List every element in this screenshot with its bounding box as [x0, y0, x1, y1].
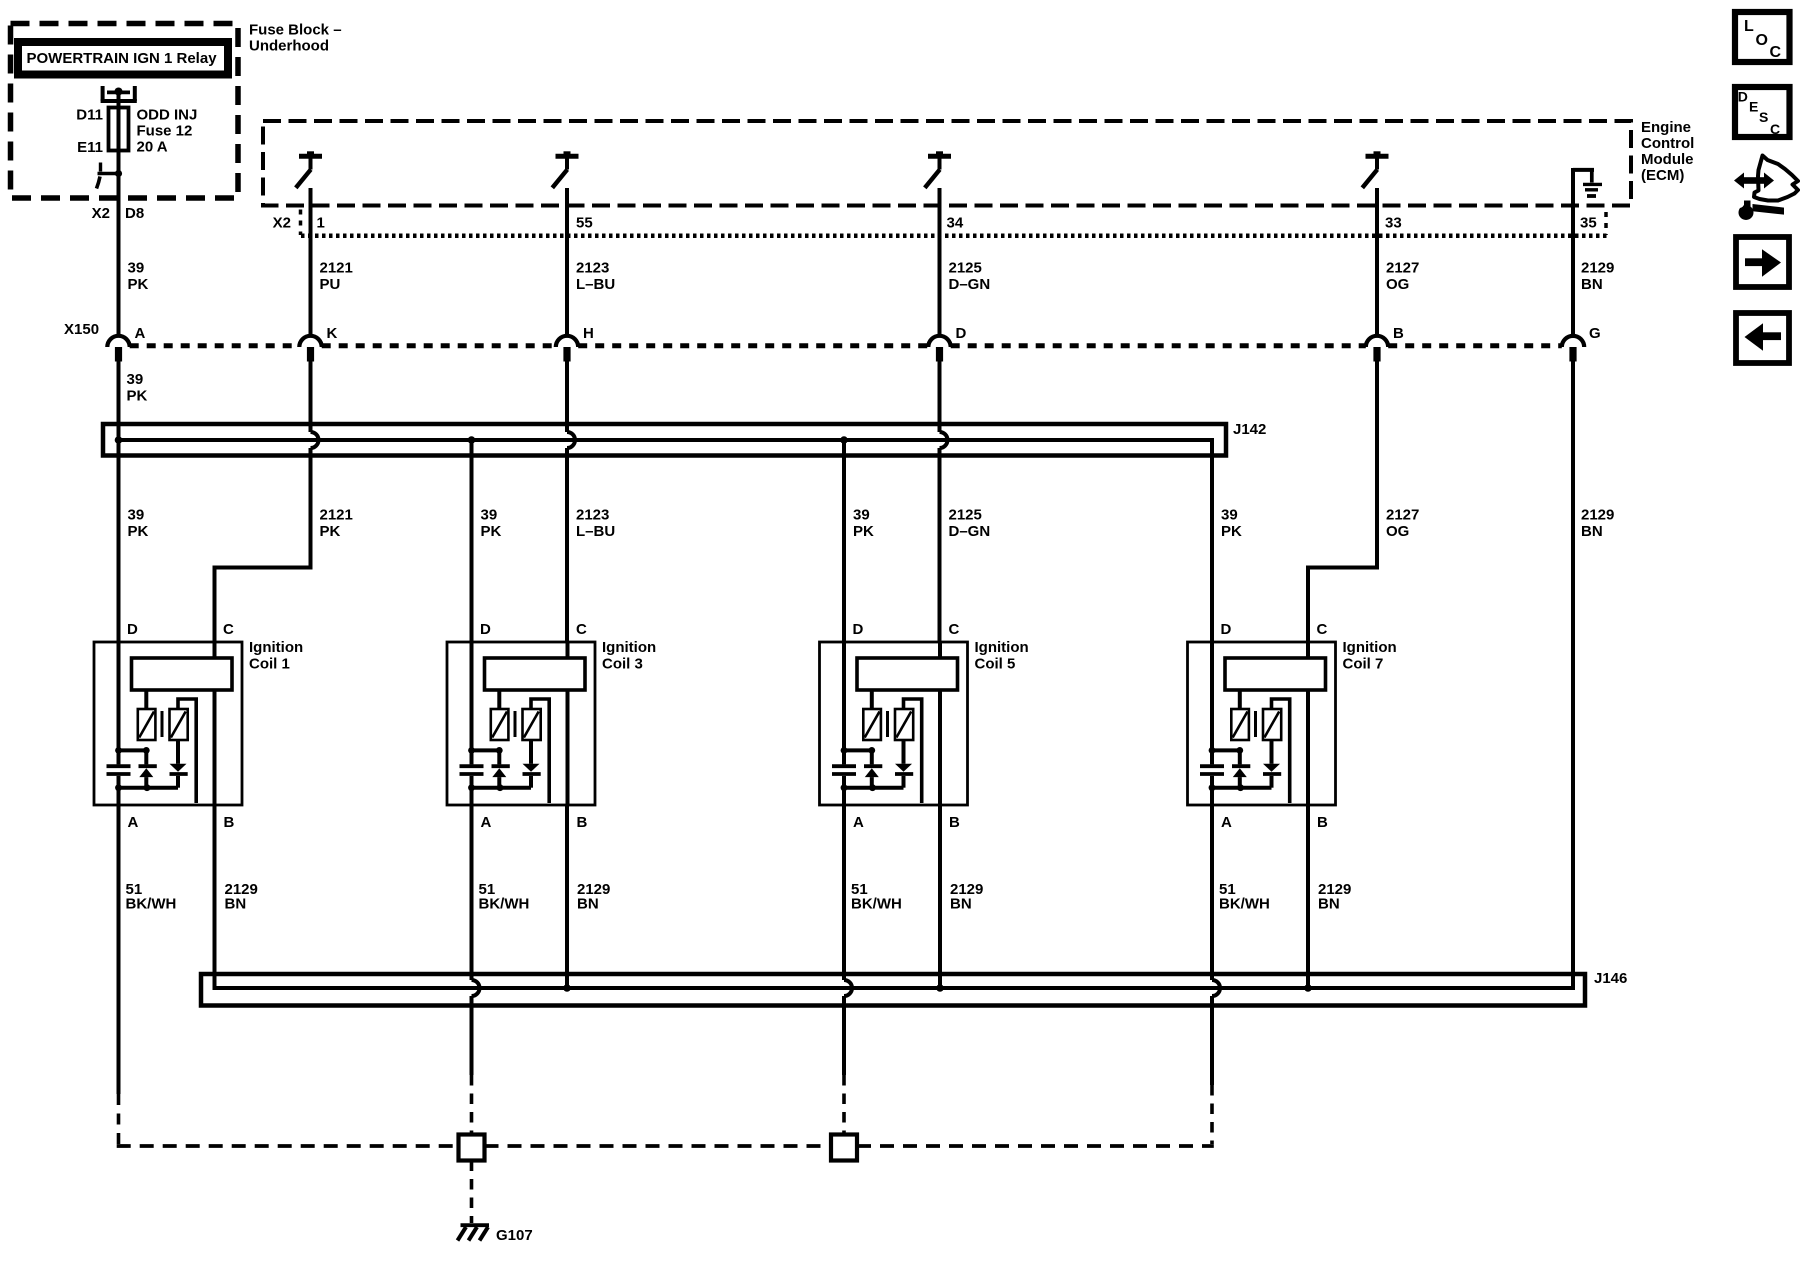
svg-text:D8: D8 — [125, 205, 144, 222]
svg-text:C: C — [1317, 621, 1328, 638]
junction bar — [119, 786, 179, 790]
svg-text:39: 39 — [128, 260, 145, 277]
primary winding — [1231, 709, 1249, 740]
ignition coil 5 box — [820, 642, 968, 805]
svg-text:ODD INJ: ODD INJ — [137, 107, 198, 124]
junction bar — [472, 786, 532, 790]
icon adjust (glove with arrows and wrench) — [1754, 156, 1798, 201]
coil primary bar — [485, 658, 586, 690]
secondary winding — [895, 709, 913, 740]
svg-text:2127: 2127 — [1386, 260, 1419, 277]
relay output terminal — [101, 86, 105, 101]
svg-text:(ECM): (ECM) — [1641, 167, 1684, 184]
junction — [1304, 984, 1312, 992]
wire 2125 D-GN (pin 34 to X150-D) — [938, 188, 942, 335]
svg-text:39: 39 — [481, 507, 498, 524]
wire 39 PK from relay through fuse to connector X150-A — [117, 92, 121, 335]
svg-text:2123: 2123 — [576, 260, 609, 277]
inline connection — [459, 1135, 485, 1161]
wire 2121 (X150-K across J142 to jog) — [309, 360, 313, 432]
secondary HV lead — [1272, 699, 1290, 803]
svg-text:2125: 2125 — [949, 507, 982, 524]
wire to ground G107 (dashed) — [470, 1161, 474, 1224]
junction — [115, 436, 123, 444]
core — [1254, 711, 1257, 737]
svg-text:OG: OG — [1386, 523, 1409, 540]
junction bar — [844, 786, 904, 790]
svg-text:D11: D11 — [76, 107, 103, 124]
svg-text:BK/WH: BK/WH — [479, 896, 530, 913]
svg-text:2125: 2125 — [949, 260, 982, 277]
zener diode — [870, 750, 874, 764]
junction bar — [844, 748, 872, 752]
ECM connector X2 boundary (dotted) — [301, 234, 1607, 239]
ECM driver (pin 55) — [556, 154, 579, 159]
svg-text:D: D — [956, 325, 967, 342]
svg-text:39: 39 — [1221, 507, 1238, 524]
svg-text:X2: X2 — [92, 205, 110, 222]
secondary winding — [170, 709, 188, 740]
svg-text:2123: 2123 — [576, 507, 609, 524]
svg-text:G: G — [1589, 325, 1601, 342]
wire 51 BK/WH hidden run (coil1 side) — [117, 1094, 121, 1144]
svg-text:Coil 5: Coil 5 — [975, 656, 1016, 673]
icon DESC — [1735, 87, 1790, 137]
wire C pin into primary — [1306, 642, 1310, 658]
svg-text:2127: 2127 — [1386, 507, 1419, 524]
secondary HV lead — [178, 699, 196, 803]
wire 2127 jog to coil7 C — [1308, 568, 1379, 643]
wire 39 PK (J142 to coil5 D) — [842, 440, 846, 642]
svg-text:Coil 3: Coil 3 — [602, 656, 643, 673]
wire 2127 (X150-B to jog) — [1375, 360, 1379, 568]
core — [514, 711, 517, 737]
zener diode — [144, 750, 148, 764]
svg-text:D: D — [127, 621, 138, 638]
svg-text:BN: BN — [950, 896, 972, 913]
core — [161, 711, 164, 737]
secondary HV lead — [904, 699, 922, 803]
connector X150 terminal B — [1366, 336, 1388, 347]
connector X150 terminal A — [107, 336, 129, 347]
relay POWERTRAIN IGN 1 Relay — [18, 42, 228, 75]
svg-text:D–GN: D–GN — [949, 523, 991, 540]
ECM driver (pin 33) — [1366, 154, 1389, 159]
svg-text:PK: PK — [481, 523, 502, 540]
svg-text:Ignition: Ignition — [602, 639, 656, 656]
connector X150 terminal K — [299, 336, 321, 347]
svg-text:B: B — [224, 814, 235, 831]
svg-text:C: C — [949, 621, 960, 638]
svg-text:20 A: 20 A — [137, 139, 168, 156]
wire 51 BK/WH (coil A down) — [117, 805, 121, 1094]
svg-text:BN: BN — [577, 896, 599, 913]
wire 2129 BN (coil B to J146) — [938, 805, 942, 988]
wire 39 PK (J142 to coil3 D) — [470, 440, 474, 642]
junction — [936, 984, 944, 992]
icon LOC — [1735, 12, 1790, 62]
svg-text:B: B — [949, 814, 960, 831]
connector X150 terminal H — [556, 336, 578, 347]
wire 2123 (X150-H across J142 to coil3 C) — [565, 360, 569, 432]
ignition coil 3 box — [447, 642, 595, 805]
wire to pin A — [842, 788, 846, 805]
svg-text:PK: PK — [1221, 523, 1242, 540]
wire primary to windings — [1238, 690, 1242, 710]
svg-text:D–GN: D–GN — [949, 276, 991, 293]
splice pack J146 — [201, 974, 1585, 1006]
svg-text:PK: PK — [128, 523, 149, 540]
svg-text:Module: Module — [1641, 151, 1694, 168]
wire C pin into primary — [566, 642, 570, 658]
junction — [468, 436, 476, 444]
wire 51 BK/WH hidden run (coil3 side) — [470, 1075, 474, 1135]
ECM internal ground symbol (pin 35) — [1573, 168, 1594, 172]
svg-text:PK: PK — [127, 388, 148, 405]
svg-text:G107: G107 — [496, 1227, 533, 1244]
primary winding — [138, 709, 156, 740]
icon back arrow — [1736, 313, 1789, 363]
svg-text:A: A — [1221, 814, 1232, 831]
svg-text:BK/WH: BK/WH — [1219, 896, 1270, 913]
ECM driver (pin 34) — [928, 154, 951, 159]
ground run (dashed) — [117, 1144, 459, 1148]
wire D pin inside coil — [470, 642, 474, 750]
svg-text:C: C — [223, 621, 234, 638]
wire to pin A — [117, 788, 121, 805]
svg-text:L: L — [1744, 18, 1754, 35]
svg-text:C: C — [1770, 44, 1782, 61]
zener diode — [1238, 750, 1242, 764]
svg-text:2129: 2129 — [1581, 260, 1614, 277]
wire 2129 BN (pin 35 to X150-G) — [1571, 168, 1575, 335]
fuse F12 ODD INJ 20 A — [109, 108, 129, 151]
wire 51 BK/WH (coil A down) — [470, 805, 474, 980]
junction — [563, 984, 571, 992]
wire to pin B — [1306, 690, 1310, 805]
svg-text:L–BU: L–BU — [576, 276, 615, 293]
svg-text:PK: PK — [853, 523, 874, 540]
svg-text:Underhood: Underhood — [249, 38, 329, 55]
svg-text:J146: J146 — [1594, 970, 1627, 987]
wire to pin B — [213, 690, 217, 805]
wire 51 BK/WH hidden run (coil7 side) — [1210, 1085, 1214, 1144]
connector X150 line (dotted) — [130, 343, 300, 348]
svg-text:39: 39 — [127, 371, 144, 388]
wire 51 BK/WH (coil A down) — [1210, 805, 1214, 980]
svg-text:BN: BN — [1581, 523, 1603, 540]
svg-text:BN: BN — [1318, 896, 1340, 913]
capacitor — [842, 750, 846, 764]
svg-text:1: 1 — [317, 215, 325, 232]
svg-text:B: B — [1393, 325, 1404, 342]
ground G107 — [461, 1223, 490, 1227]
svg-text:Control: Control — [1641, 135, 1694, 152]
svg-text:39: 39 — [128, 507, 145, 524]
svg-text:PU: PU — [320, 276, 341, 293]
wire 2123 L-BU (pin 55 to X150-H) — [565, 188, 569, 335]
zener diode — [497, 750, 501, 764]
diode — [529, 740, 533, 764]
wire to pin B — [938, 690, 942, 805]
capacitor — [117, 750, 121, 764]
svg-text:A: A — [135, 325, 146, 342]
splice pack J142 — [103, 424, 1226, 456]
wire D pin inside coil — [1210, 642, 1214, 750]
svg-text:PK: PK — [128, 276, 149, 293]
svg-text:2121: 2121 — [320, 260, 353, 277]
wire D pin inside coil — [842, 642, 846, 750]
connector X150 terminal G — [1562, 336, 1584, 347]
svg-text:Ignition: Ignition — [975, 639, 1029, 656]
svg-text:C: C — [576, 621, 587, 638]
inline connection — [831, 1135, 857, 1161]
wire 2129 BN (coil B to J146) — [213, 805, 217, 988]
wire to pin B — [566, 690, 570, 805]
ignition coil 7 box — [1188, 642, 1336, 805]
svg-text:O: O — [1756, 32, 1768, 49]
connector X150 terminal D — [928, 336, 950, 347]
diode — [1270, 740, 1274, 764]
svg-text:D: D — [480, 621, 491, 638]
ground run (dashed) — [485, 1144, 832, 1148]
svg-text:BN: BN — [225, 896, 247, 913]
svg-text:Coil 1: Coil 1 — [249, 656, 290, 673]
svg-text:B: B — [1317, 814, 1328, 831]
junction bar — [472, 748, 500, 752]
svg-text:X2: X2 — [273, 215, 291, 232]
svg-text:34: 34 — [947, 215, 964, 232]
wire D pin inside coil — [117, 642, 121, 750]
wire 2125 (X150-D across J142 to coil5 C) — [938, 360, 942, 432]
capacitor — [1210, 750, 1214, 764]
wire 2127 OG (pin 33 to X150-B) — [1375, 188, 1379, 335]
primary winding — [863, 709, 881, 740]
wire 2121 jog to coil1 C — [215, 568, 313, 643]
wire primary to windings — [870, 690, 874, 710]
icon next arrow — [1736, 237, 1789, 287]
core — [886, 711, 889, 737]
primary winding — [491, 709, 509, 740]
svg-text:Coil 7: Coil 7 — [1343, 656, 1384, 673]
junction bar — [1212, 786, 1272, 790]
svg-text:BN: BN — [1581, 276, 1603, 293]
svg-text:33: 33 — [1385, 215, 1402, 232]
wire 39 PK (X150-A to J142) — [117, 360, 121, 440]
wire primary to windings — [144, 690, 148, 710]
ignition coil 1 box — [94, 642, 242, 805]
svg-text:A: A — [128, 814, 139, 831]
wire 2129 BN (coil B to J146) — [565, 805, 569, 988]
svg-text:C: C — [1770, 121, 1780, 137]
svg-text:Fuse Block –: Fuse Block – — [249, 22, 342, 39]
capacitor — [470, 750, 474, 764]
svg-text:B: B — [577, 814, 588, 831]
svg-text:S: S — [1759, 109, 1768, 125]
svg-text:35: 35 — [1580, 215, 1597, 232]
diode — [176, 740, 180, 764]
svg-text:A: A — [853, 814, 864, 831]
coil primary bar — [857, 658, 958, 690]
svg-text:Ignition: Ignition — [1343, 639, 1397, 656]
svg-text:Fuse 12: Fuse 12 — [137, 123, 193, 140]
svg-text:A: A — [481, 814, 492, 831]
wire to pin A — [1210, 788, 1214, 805]
ECM driver (pin 1) — [299, 154, 322, 159]
fuse block - underhood (dashed outline) — [11, 24, 239, 199]
svg-text:POWERTRAIN IGN 1 Relay: POWERTRAIN IGN 1 Relay — [27, 50, 218, 67]
svg-text:55: 55 — [576, 215, 593, 232]
junction bar — [119, 748, 147, 752]
junction — [840, 436, 848, 444]
svg-text:E11: E11 — [77, 139, 103, 156]
svg-text:Ignition: Ignition — [249, 639, 303, 656]
svg-text:2129: 2129 — [1581, 507, 1614, 524]
svg-text:OG: OG — [1386, 276, 1409, 293]
relay movable contact — [99, 163, 102, 172]
wire 2129 (X150-G to J146) — [1571, 360, 1575, 988]
svg-text:K: K — [327, 325, 338, 342]
svg-text:H: H — [583, 325, 594, 342]
svg-text:D: D — [1738, 89, 1748, 105]
svg-text:39: 39 — [853, 507, 870, 524]
svg-text:L–BU: L–BU — [576, 523, 615, 540]
svg-text:J142: J142 — [1233, 421, 1266, 438]
svg-text:BK/WH: BK/WH — [851, 896, 902, 913]
wire 2121 PU (pin 1 to X150-K) — [309, 188, 313, 335]
wire primary to windings — [497, 690, 501, 710]
junction bar — [1212, 748, 1240, 752]
secondary winding — [1263, 709, 1281, 740]
diode — [902, 740, 906, 764]
wire 51 BK/WH (coil A down) — [842, 805, 846, 980]
svg-text:Engine: Engine — [1641, 119, 1691, 136]
secondary HV lead — [531, 699, 549, 803]
ECM Engine Control Module (dashed outline) — [263, 121, 1631, 206]
wire C pin into primary — [938, 642, 942, 658]
wire C pin into primary — [213, 642, 217, 658]
svg-text:2121: 2121 — [320, 507, 353, 524]
svg-text:PK: PK — [320, 523, 341, 540]
secondary winding — [523, 709, 541, 740]
coil primary bar — [1225, 658, 1326, 690]
coil primary bar — [132, 658, 233, 690]
ground run (dashed) — [857, 1144, 1214, 1148]
svg-text:E: E — [1749, 99, 1758, 115]
svg-text:D: D — [853, 621, 864, 638]
wire 39 PK (J142 through to coil1 D) — [117, 440, 121, 642]
svg-text:X150: X150 — [64, 321, 99, 338]
svg-text:D: D — [1221, 621, 1232, 638]
wire 51 BK/WH hidden run (coil5 side) — [842, 1075, 846, 1135]
wire 2129 BN (coil B to J146) — [1306, 805, 1310, 988]
svg-text:BK/WH: BK/WH — [126, 896, 177, 913]
wire to pin A — [470, 788, 474, 805]
